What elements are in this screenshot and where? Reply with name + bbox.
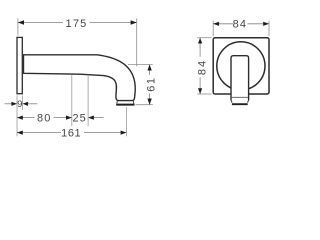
arrow 84 left bottom (points down) (198, 88, 202, 94)
wire: extension from pipe bottom at 80 (71, 75, 73, 127)
arrow 80 left (17, 116, 23, 120)
wire: extension line left of 175 dim (17, 18, 19, 35)
svg-text:25: 25 (72, 113, 86, 125)
wire: extension above square left corner (212, 21, 214, 37)
arrow right of 175 (131, 20, 137, 24)
dimension 84 left line upper segment (199, 38, 201, 57)
wire: extension left of square bottom edge (197, 93, 211, 95)
spout front view body (231, 56, 249, 100)
arrow 84 left top (points up) (198, 38, 202, 44)
aerator taper (front view) (231, 100, 249, 102)
spout body (side view) (24, 55, 136, 101)
arrow 84 top left (213, 22, 219, 26)
dimension 84 top line left segment (213, 23, 233, 25)
wire: extension left of square top edge (197, 37, 211, 39)
arrow left of 175 (18, 20, 24, 24)
arrow 9 left (points right at plate back) (11, 102, 17, 106)
arrow 25 right (outside, points left) (88, 116, 94, 120)
dimension 61 line lower segment (149, 94, 151, 105)
dimension 161 line right segment (84, 132, 126, 134)
arrow 61 bottom (points down) (147, 99, 151, 105)
svg-text:61: 61 (146, 76, 158, 91)
wire: extension right of spout for 61 top (128, 64, 153, 66)
dimension 9 right tail (28, 103, 38, 105)
dimension 61 line upper segment (149, 65, 151, 76)
wire: extension right of aerator for 61 bottom (136, 104, 153, 106)
wire: extension from pipe bottom at 80+25 (87, 75, 89, 126)
svg-text:84: 84 (197, 59, 209, 75)
svg-text:9: 9 (17, 99, 22, 110)
escutcheon square (front view) (213, 38, 269, 94)
wall plate (side view) (17, 37, 22, 93)
dimension 84 top line right segment (248, 23, 270, 25)
wire: extension above square right corner (268, 21, 270, 37)
aerator face (front view) (232, 103, 248, 105)
dimension 161 line left segment (17, 132, 61, 134)
dimension 175 line right segment (90, 22, 137, 24)
wire: plate left extension below (serves 9 / 80 / 161) (16, 95, 18, 136)
dimension 9 left tail (5, 103, 18, 105)
wire: extension line right of 175 dim (spout tip plane) (136, 18, 138, 66)
svg-text:175: 175 (66, 18, 88, 30)
svg-text:161: 161 (61, 128, 81, 140)
dimension 84 left line lower segment (199, 77, 201, 94)
arrow 161 right (121, 131, 127, 135)
dimension 80 line right segment (54, 117, 72, 119)
dimension 25 right tail (94, 117, 104, 119)
spout front seam line (232, 96, 248, 98)
svg-text:84: 84 (233, 19, 248, 31)
dimension 80 line left segment (17, 117, 35, 119)
label 9 backing (18, 100, 22, 108)
wire: extension below spout tip centre (161) (125, 107, 127, 136)
escutcheon circle (front view) (217, 42, 265, 90)
arrow 61 top (points up) (147, 65, 151, 71)
svg-text:80: 80 (37, 113, 52, 125)
dimension 175 line left segment (18, 22, 63, 24)
aerator side connector left (116, 101, 119, 104)
arrow 161 left (17, 131, 23, 135)
arrow 9 right (points left at plate front) (22, 102, 28, 106)
arrow 84 top right (263, 22, 269, 26)
wire: plate right extension below (serves 9) (21, 95, 23, 110)
arrow 80 right (66, 116, 72, 120)
aerator side connector right (132, 101, 135, 104)
aerator face (side view) (116, 104, 134, 106)
